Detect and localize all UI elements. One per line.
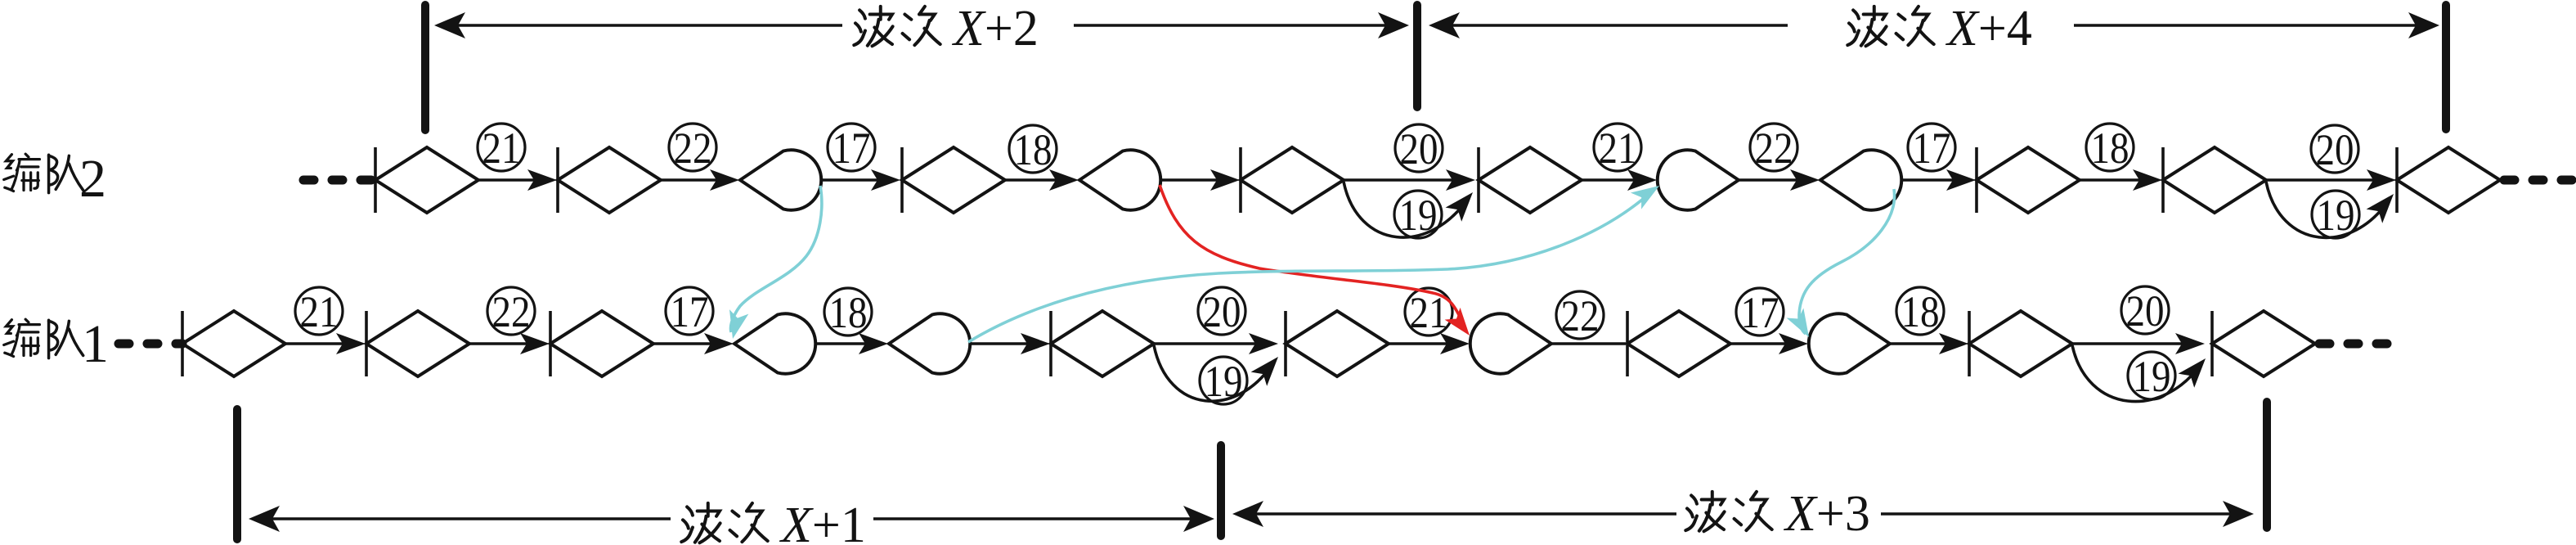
svg-text:22: 22 [1561, 291, 1600, 340]
svg-text:17: 17 [1741, 288, 1779, 337]
svg-text:18: 18 [2091, 124, 2129, 173]
svg-text:21: 21 [482, 124, 521, 173]
svg-text:22: 22 [1755, 124, 1793, 173]
svg-text:20: 20 [1203, 287, 1241, 336]
svg-text:2: 2 [79, 149, 106, 209]
svg-text:22: 22 [674, 124, 712, 173]
svg-text:21: 21 [1599, 124, 1637, 173]
svg-text:X+1: X+1 [779, 498, 866, 545]
svg-text:21: 21 [300, 287, 339, 336]
svg-text:18: 18 [1014, 125, 1052, 174]
svg-text:19: 19 [2317, 191, 2355, 240]
svg-text:20: 20 [2126, 286, 2165, 336]
svg-text:18: 18 [1901, 287, 1940, 336]
svg-text:17: 17 [832, 124, 871, 173]
svg-text:20: 20 [2316, 125, 2354, 174]
svg-text:19: 19 [1205, 357, 1243, 406]
svg-text:19: 19 [1399, 191, 1438, 240]
svg-text:X+4: X+4 [1945, 1, 2032, 56]
svg-text:20: 20 [1400, 124, 1438, 173]
svg-text:X+2: X+2 [951, 1, 1039, 56]
svg-text:X+3: X+3 [1783, 486, 1870, 542]
svg-text:18: 18 [829, 288, 868, 337]
svg-text:17: 17 [671, 287, 709, 336]
svg-text:19: 19 [2133, 352, 2171, 401]
svg-text:22: 22 [492, 287, 531, 336]
svg-text:17: 17 [1913, 124, 1951, 173]
svg-text:1: 1 [82, 314, 109, 374]
